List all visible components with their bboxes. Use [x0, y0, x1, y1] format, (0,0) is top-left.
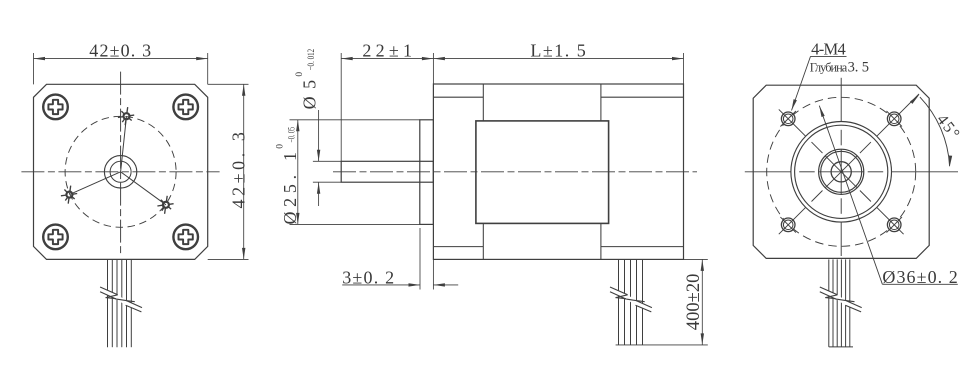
svg-text:400±20: 400±20 — [684, 274, 704, 331]
svg-text:0: 0 — [295, 72, 305, 77]
svg-text:−0. 05: −0. 05 — [288, 127, 298, 143]
svg-text:Глубина: Глубина — [810, 60, 848, 74]
svg-text:L±1. 5: L±1. 5 — [530, 40, 585, 60]
svg-text:−0. 012: −0. 012 — [307, 49, 317, 71]
svg-text:0: 0 — [276, 144, 286, 149]
svg-text:3±0. 2: 3±0. 2 — [342, 268, 394, 288]
svg-text:4-M4: 4-M4 — [811, 40, 846, 59]
svg-text:3. 5: 3. 5 — [848, 59, 869, 75]
svg-text:42±0. 3: 42±0. 3 — [89, 40, 151, 60]
